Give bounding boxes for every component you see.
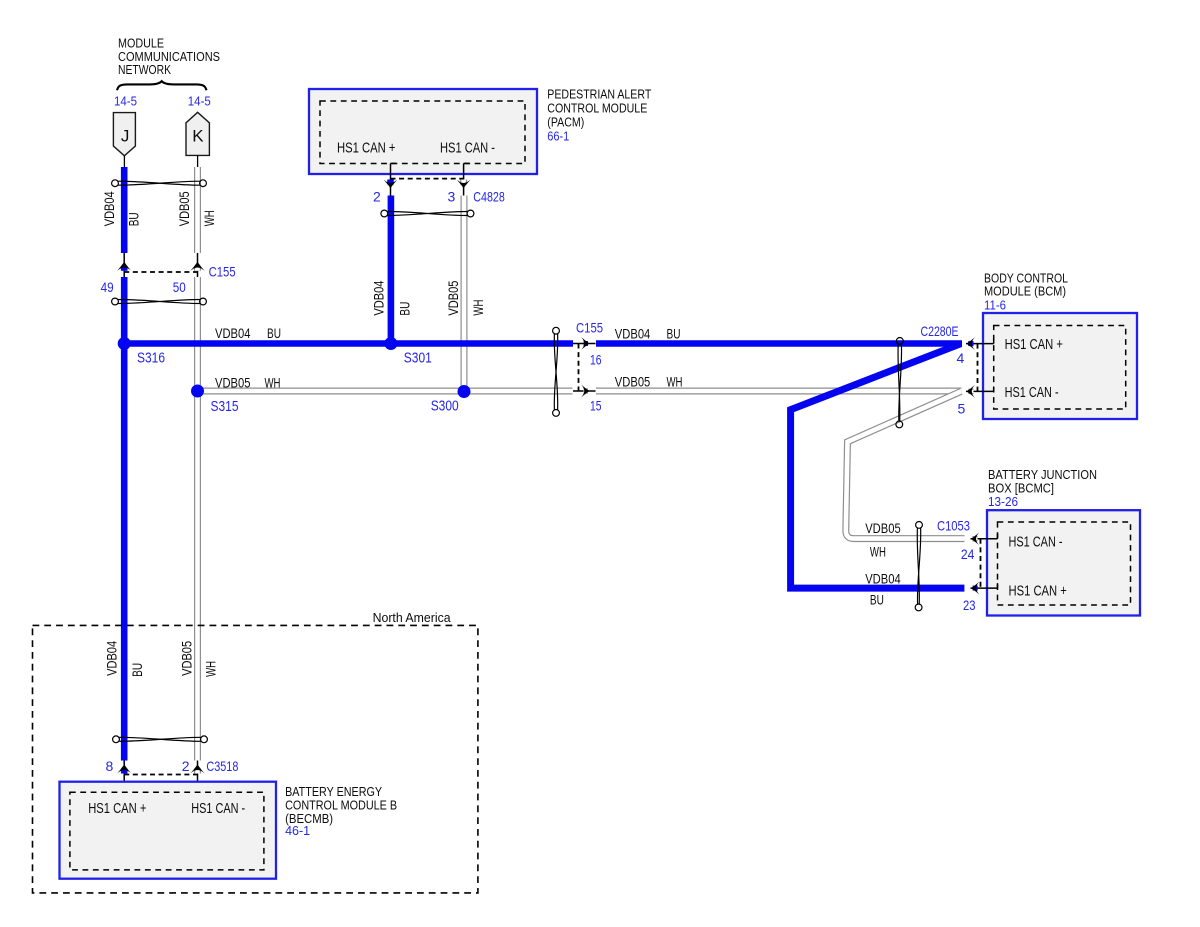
svg-text:C2280E: C2280E: [921, 323, 959, 339]
svg-text:HS1 CAN -: HS1 CAN -: [191, 800, 245, 817]
svg-text:50: 50: [173, 279, 186, 295]
BCM pin 4 tick: [993, 339, 995, 344]
connector C155 (top) arrow J: [121, 266, 128, 271]
svg-text:BU: BU: [667, 327, 681, 342]
twisted pair symbol (vertical, at C155 mid): [553, 327, 560, 416]
svg-text:S316: S316: [137, 350, 165, 366]
svg-text:WH: WH: [667, 375, 683, 390]
svg-text:WH: WH: [203, 661, 218, 677]
svg-text:5: 5: [958, 401, 966, 417]
svg-text:WH: WH: [265, 376, 281, 391]
svg-text:C1053: C1053: [937, 518, 970, 534]
svg-text:2: 2: [182, 758, 190, 774]
twisted pair symbol below C155: [112, 298, 207, 305]
label MODULE COMMUNICATIONS NETWORK: [118, 36, 220, 78]
svg-text:2: 2: [373, 188, 381, 204]
svg-text:PEDESTRIAN ALERT: PEDESTRIAN ALERT: [547, 86, 651, 101]
North America dashed box: [33, 625, 478, 893]
svg-text:J: J: [121, 127, 129, 146]
BJB pin 24 line: [971, 538, 998, 540]
svg-text:4: 4: [957, 350, 965, 366]
twisted pair symbol below PACM: [381, 210, 474, 217]
wire VDB05 WH vertical (C155 to S315): [194, 277, 201, 391]
svg-text:VDB05: VDB05: [865, 521, 901, 536]
svg-text:24: 24: [961, 546, 975, 562]
svg-text:BU: BU: [870, 592, 884, 607]
svg-text:(PACM): (PACM): [547, 114, 584, 129]
BCM pin 5 tick: [993, 387, 995, 392]
connector C4828 dashed link: [391, 178, 464, 180]
wire VDB04 BU horizontal bus (S316 to C155 mid): [124, 340, 573, 347]
BCM pins dashed link: [977, 344, 979, 392]
module BJB inner dashed box: [998, 522, 1131, 605]
wire stub below K: [197, 155, 199, 167]
svg-text:C3518: C3518: [206, 758, 238, 774]
svg-text:BU: BU: [127, 212, 142, 226]
svg-text:BU: BU: [267, 326, 281, 341]
connector K: [186, 112, 209, 155]
svg-text:VDB05: VDB05: [446, 281, 461, 316]
BJB pin 24 arrow: [972, 536, 977, 541]
PACM pin 3 arrow: [460, 180, 467, 185]
svg-text:VDB05: VDB05: [179, 641, 194, 676]
BJB pin 24 tick: [997, 534, 999, 539]
BCM pin 4 line: [966, 343, 994, 345]
connector C155 (mid) arrow 15: [584, 388, 588, 393]
wire VDB04 BU horizontal bus (C155 mid to BCM): [596, 340, 962, 347]
svg-text:S315: S315: [211, 399, 239, 415]
label BECMB title: [285, 784, 397, 838]
svg-text:VDB04: VDB04: [102, 191, 117, 226]
connector C155 (mid) stub 15: [573, 390, 596, 392]
svg-text:VDB04: VDB04: [215, 326, 251, 341]
twisted pair symbol (vertical, near BCM): [896, 338, 903, 428]
PACM pin 3 tick: [464, 162, 470, 164]
svg-text:C4828: C4828: [473, 188, 505, 204]
svg-text:VDB04: VDB04: [865, 572, 901, 587]
svg-text:HS1 CAN +: HS1 CAN +: [337, 139, 396, 156]
svg-text:North America: North America: [373, 610, 452, 625]
svg-text:8: 8: [106, 758, 114, 774]
twisted pair symbol below J/K: [112, 180, 207, 187]
svg-text:WH: WH: [471, 300, 486, 316]
wire VDB05 WH diagonal (BCM pin 5 to BJB 24): [846, 391, 965, 538]
svg-text:HS1 CAN -: HS1 CAN -: [1005, 384, 1059, 401]
BJB pins dashed link: [980, 539, 982, 588]
svg-text:14-5: 14-5: [114, 93, 137, 108]
twisted pair symbol above BECMB: [113, 736, 208, 743]
twisted pair symbol (vertical, near BJB): [915, 522, 922, 611]
brace over network leads: [117, 81, 207, 90]
connector C3518 stub 8: [123, 761, 125, 798]
svg-text:14-5: 14-5: [188, 93, 211, 108]
wire VDB04 BU (PACM pin 2 down to S301): [388, 196, 395, 344]
module BECMB inner dashed box: [70, 792, 264, 870]
module BECMB box: [60, 782, 277, 879]
module BCM box: [983, 313, 1137, 419]
connector J: [113, 113, 135, 156]
connector C155 (top) arrow K: [194, 266, 201, 271]
svg-text:11-6: 11-6: [984, 298, 1006, 313]
svg-text:WH: WH: [870, 544, 886, 559]
wire VDB05 WH (PACM pin 3 down to S300): [461, 196, 468, 392]
splice S301: [384, 337, 397, 350]
svg-text:K: K: [192, 127, 204, 146]
svg-text:VDB05: VDB05: [615, 375, 651, 390]
module PACM box: [309, 89, 537, 174]
svg-text:WH: WH: [202, 210, 217, 226]
connector C155 (mid) stub 16: [573, 343, 596, 345]
svg-text:HS1 CAN -: HS1 CAN -: [1009, 533, 1063, 550]
connector C155 (mid) arrow 16: [584, 341, 588, 346]
svg-text:MODULE (BCM): MODULE (BCM): [984, 284, 1066, 299]
wire VDB04 BU diagonal (BCM pin 4 to BJB 23): [791, 344, 965, 588]
svg-text:BU: BU: [130, 663, 145, 677]
svg-text:49: 49: [101, 279, 114, 295]
connector C3518 dashed link: [124, 774, 197, 776]
svg-text:BU: BU: [398, 302, 413, 316]
wire VDB05 WH horizontal bus (S315 to C155 mid): [198, 388, 573, 395]
BJB pin 23 tick: [997, 583, 999, 588]
svg-text:HS1 CAN -: HS1 CAN -: [440, 139, 495, 156]
splice S300: [458, 385, 471, 398]
svg-text:HS1 CAN +: HS1 CAN +: [1009, 582, 1067, 599]
PACM pin 3 stub: [463, 163, 465, 195]
svg-text:23: 23: [963, 597, 976, 613]
svg-text:VDB05: VDB05: [215, 376, 251, 391]
wire stub below J: [123, 156, 125, 167]
PACM pin 2 stub: [390, 163, 392, 195]
BCM pin 5 line: [966, 390, 994, 392]
svg-text:16: 16: [590, 351, 602, 367]
wire VDB05 WH vertical (K down to C155): [194, 167, 201, 253]
svg-text:S301: S301: [404, 350, 432, 366]
svg-text:VDB04: VDB04: [105, 641, 120, 676]
wire VDB04 BU vertical (J down to C155): [121, 167, 128, 253]
svg-text:46-1: 46-1: [285, 823, 310, 838]
wire VDB04 BU vertical (C155 to S316): [121, 277, 128, 344]
label BJB title: [988, 467, 1097, 509]
svg-text:S300: S300: [431, 398, 459, 414]
BJB pin 23 arrow: [973, 586, 978, 591]
splice S316: [118, 337, 131, 350]
BCM pin 5 arrow: [968, 389, 973, 394]
PACM pin 2 tick: [391, 162, 397, 164]
svg-text:VDB04: VDB04: [615, 327, 651, 342]
splice S315: [191, 385, 204, 398]
svg-text:CONTROL MODULE: CONTROL MODULE: [547, 100, 647, 115]
wire VDB05 WH vertical (S315 down to BECMB): [194, 391, 201, 761]
PACM pin 2 arrow: [387, 180, 394, 185]
connector C155 (top) stub J: [123, 253, 125, 277]
connector C3518 arrow 8: [121, 769, 128, 774]
svg-text:3: 3: [448, 188, 456, 204]
svg-text:13-26: 13-26: [988, 494, 1018, 509]
connector C155 (top) stub K: [197, 253, 199, 277]
svg-text:15: 15: [590, 397, 602, 413]
svg-text:HS1 CAN +: HS1 CAN +: [1005, 336, 1063, 353]
svg-text:HS1 CAN +: HS1 CAN +: [88, 800, 146, 817]
svg-text:C155: C155: [576, 320, 603, 336]
svg-text:VDB04: VDB04: [372, 280, 387, 315]
svg-text:NETWORK: NETWORK: [118, 62, 171, 77]
connector C155 (top) dashed link: [124, 271, 197, 273]
module BJB box: [987, 510, 1140, 615]
label BCM title: [984, 271, 1068, 313]
wire VDB05 WH horizontal bus (C155 mid to BCM): [596, 388, 961, 395]
connector C155 (mid) dashed link: [578, 344, 580, 392]
label PACM title: [547, 86, 651, 143]
BCM pin 4 arrow: [968, 341, 973, 346]
module BCM inner dashed box: [994, 326, 1126, 410]
BJB pin 23 line: [971, 587, 998, 589]
svg-text:C155: C155: [209, 264, 236, 280]
module PACM inner dashed box: [320, 101, 525, 164]
connector C3518 arrow 2: [194, 769, 201, 774]
wire VDB04 BU vertical (S316 down to BECMB): [121, 344, 128, 761]
connector C3518 stub 2: [197, 761, 199, 798]
svg-text:VDB05: VDB05: [177, 191, 192, 226]
svg-text:66-1: 66-1: [547, 128, 569, 143]
